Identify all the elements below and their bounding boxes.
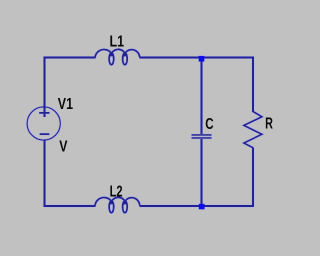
capacitor C plates [192,135,212,138]
inductor L2 [95,197,140,212]
wire capacitor branch lower (C to bottom junction) [201,139,203,206]
wire right vertical lower (R to bottom corner) [252,148,254,208]
junction bottom node [199,204,205,210]
wire left vertical upper (top corner to V1) [44,57,46,118]
wire capacitor branch upper (junction to C) [201,58,203,134]
svg-text:L2: L2 [110,183,123,200]
wire top-left horizontal (left corner to L1) [45,57,96,59]
svg-text:V1: V1 [58,96,74,113]
svg-text:L1: L1 [110,33,125,50]
resistor R [244,112,262,148]
inductor L1 [95,49,140,64]
wire top-right horizontal (L1 to right corner) [140,57,255,59]
wire left vertical lower (V1 to bottom corner) [44,141,46,208]
wire bottom horizontal right (L2 to right corner) [140,205,255,207]
wire bottom horizontal left (corner to L2) [45,205,96,207]
svg-text:V: V [59,139,68,156]
voltage source V1 [27,107,60,140]
svg-text:R: R [265,116,273,133]
junction top node [199,56,205,62]
svg-text:C: C [205,116,213,133]
wire right vertical upper (top corner to R) [252,57,254,113]
